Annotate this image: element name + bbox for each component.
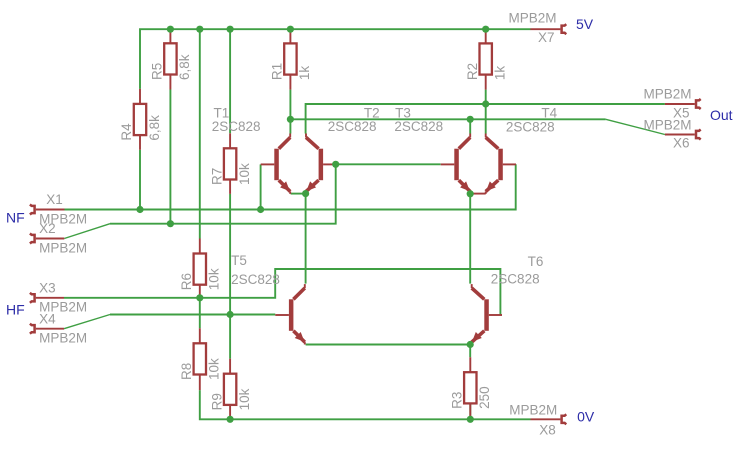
resistor R9 bottom stub — [229, 405, 231, 419]
resistor R7 — [224, 148, 236, 179]
svg-text:10k: 10k — [207, 358, 222, 380]
wire net OUT: R2 bottom column — [485, 90, 487, 134]
resistor R3 — [464, 372, 476, 403]
resistor R1 top stub — [289, 29, 291, 43]
svg-text:1k: 1k — [493, 66, 508, 81]
wire R7 column from rail — [229, 29, 231, 133]
junction HF/R6 — [196, 294, 203, 301]
wire net NF: X1 to T4 base riser — [65, 164, 516, 209]
svg-text:5V: 5V — [576, 16, 594, 32]
wire R9 top segment — [229, 315, 231, 359]
connector pin X6 — [665, 130, 701, 140]
wire net HF: X3 over to T6 base — [64, 269, 500, 315]
svg-text:T4: T4 — [541, 106, 557, 121]
svg-text:250: 250 — [477, 386, 492, 409]
svg-text:X6: X6 — [673, 135, 690, 150]
resistor R8 top stub — [199, 328, 201, 343]
junction NFbar/R5 — [167, 220, 174, 227]
junction 0V/R9 — [227, 416, 234, 423]
resistor R8 bottom stub — [199, 375, 201, 391]
wire net OUTbar: diagonal to X6 — [606, 119, 665, 134]
resistor R1 bottom stub — [289, 75, 291, 90]
junction 5V/R7 column — [227, 26, 234, 33]
wire R5 bottom to X2 line — [169, 90, 171, 224]
svg-text:R7: R7 — [209, 168, 224, 185]
svg-text:10k: 10k — [207, 268, 222, 290]
transistor T3 — [441, 134, 471, 194]
resistor R5 top stub — [169, 29, 171, 43]
wire T2 emitter to T5 collector — [305, 194, 307, 284]
wire net OUTbar: horizontal run — [290, 118, 605, 120]
transistor T2 — [306, 134, 336, 194]
connector pin X7 — [530, 24, 566, 34]
junction OUTbar/R1/T1 — [287, 116, 294, 123]
svg-text:X4: X4 — [39, 311, 56, 326]
wire 5V rail net — [140, 29, 531, 89]
resistor R6 — [194, 254, 206, 285]
svg-text:T5: T5 — [231, 253, 247, 268]
wire net OUT: T2 collector to X5 — [306, 104, 665, 134]
svg-text:MPB2M: MPB2M — [644, 117, 692, 132]
wire T3/T4 emitters junction — [470, 193, 486, 195]
junction 5V/R2 — [482, 26, 489, 33]
resistor R8 — [194, 343, 206, 374]
svg-text:R3: R3 — [450, 392, 465, 409]
resistor R3 bottom stub — [469, 403, 471, 419]
resistor R7 top stub — [229, 133, 231, 148]
junction NF/T1 base — [257, 206, 264, 213]
svg-text:MPB2M: MPB2M — [509, 403, 557, 418]
svg-text:2SC828: 2SC828 — [328, 119, 377, 134]
resistor R7 bottom stub — [229, 180, 231, 194]
svg-text:2SC828: 2SC828 — [212, 119, 261, 134]
junction 5V/R6 column — [196, 26, 203, 33]
svg-text:2SC828: 2SC828 — [394, 119, 443, 134]
svg-text:MPB2M: MPB2M — [509, 10, 557, 25]
svg-text:MPB2M: MPB2M — [644, 86, 692, 101]
wire net NF: T1 base riser — [260, 164, 262, 209]
svg-text:2SC828: 2SC828 — [506, 120, 555, 135]
wire net NFbar: T2/T3 base bus — [336, 163, 441, 165]
junction T3/T4 emitters — [467, 190, 474, 197]
junction OUT/R2 — [482, 100, 489, 107]
svg-text:MPB2M: MPB2M — [39, 240, 87, 255]
svg-text:X8: X8 — [539, 422, 556, 437]
wire R7 to X4 line — [229, 194, 231, 315]
resistor R9 top stub — [229, 359, 231, 374]
svg-text:2SC828: 2SC828 — [231, 272, 280, 287]
wire net NFbar: run to T2/T3 base riser — [110, 164, 336, 223]
connector pin X3 — [30, 293, 64, 303]
svg-text:MPB2M: MPB2M — [39, 331, 87, 346]
transistor T4 — [486, 134, 516, 194]
resistor R4 bottom stub — [139, 135, 141, 150]
svg-text:X3: X3 — [39, 280, 56, 295]
connector pin X8 — [531, 414, 567, 424]
svg-text:2SC828: 2SC828 — [491, 272, 540, 287]
junction OUTbar/T3 collector — [467, 116, 474, 123]
wire R6 column from rail — [199, 29, 201, 238]
resistor R1 — [284, 43, 296, 74]
svg-text:HF: HF — [6, 302, 25, 318]
svg-text:R1: R1 — [270, 63, 285, 80]
wire T3 emitter to T6 collector — [469, 194, 471, 284]
junction 5V/R1 — [287, 26, 294, 33]
junction T5/T6 emitters — [467, 341, 474, 348]
svg-text:T6: T6 — [528, 254, 544, 269]
wire emitters to R3 top — [469, 345, 471, 358]
resistor R5 bottom stub — [169, 75, 171, 90]
resistor R2 bottom stub — [485, 75, 487, 90]
resistor R4 — [134, 104, 146, 135]
junction NFbar/T2 base — [332, 161, 339, 168]
wire R3 bottom to 0V — [469, 404, 471, 419]
wire net NFbar: X2 diagonal — [64, 224, 110, 239]
connector pin X2 — [30, 234, 64, 244]
resistor R6 bottom stub — [199, 285, 201, 298]
wire R6 to R8 segment — [199, 298, 201, 329]
wire net HFbar: run to T5 base — [110, 314, 275, 316]
wire net HFbar: X4 diagonal — [64, 315, 110, 329]
svg-text:R4: R4 — [119, 123, 134, 141]
svg-text:NF: NF — [6, 210, 25, 226]
junction HFbar/R7-R9 column — [227, 311, 234, 318]
connector pin X1 — [30, 205, 65, 215]
wire net OUTbar: T3 collector drop — [469, 119, 471, 133]
svg-text:X7: X7 — [538, 30, 555, 45]
transistor T5 — [275, 284, 305, 344]
junction 5V/R5 — [167, 26, 174, 33]
svg-text:10k: 10k — [237, 163, 252, 185]
wire T1/T2 emitters junction — [291, 193, 306, 195]
svg-text:X1: X1 — [46, 192, 63, 207]
svg-text:R8: R8 — [179, 363, 194, 380]
wire R4 bottom to NF line — [139, 150, 141, 210]
connector pin X5 — [665, 99, 701, 109]
svg-text:R2: R2 — [465, 63, 480, 80]
svg-text:R9: R9 — [209, 393, 224, 410]
wire net OUTbar: R1 bottom — [289, 90, 291, 134]
resistor R4 top stub — [139, 89, 141, 104]
svg-text:0V: 0V — [577, 408, 595, 424]
svg-text:R6: R6 — [179, 273, 194, 290]
transistor T6 — [472, 284, 502, 344]
svg-text:1k: 1k — [297, 66, 312, 81]
junction 0V/R3 — [467, 416, 474, 423]
svg-text:Out: Out — [710, 107, 733, 123]
resistor R9 — [224, 374, 236, 405]
connector pin X4 — [30, 324, 64, 334]
wire T5/T6 emitter line — [306, 344, 471, 346]
wire R8 bottom + 0V rail — [200, 390, 531, 419]
junction NF/R4 — [136, 206, 143, 213]
svg-text:6,8k: 6,8k — [147, 115, 162, 141]
resistor R5 — [164, 43, 176, 74]
resistor R6 top stub — [199, 239, 201, 254]
resistor R2 top stub — [485, 29, 487, 43]
resistor R2 — [480, 43, 492, 74]
resistor R3 top stub — [469, 357, 471, 372]
svg-text:X2: X2 — [39, 221, 56, 236]
svg-text:10k: 10k — [237, 388, 252, 410]
svg-text:R5: R5 — [150, 63, 165, 80]
transistor T1 — [261, 134, 291, 194]
junction T1/T2 emitters — [302, 190, 309, 197]
svg-text:6,8k: 6,8k — [177, 54, 192, 80]
